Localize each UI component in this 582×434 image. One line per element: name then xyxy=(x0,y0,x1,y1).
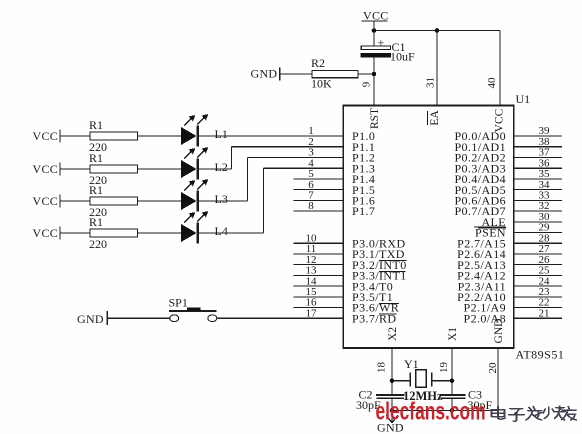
wire pin 21 stub xyxy=(514,317,562,319)
svg-text:R1: R1 xyxy=(89,183,103,197)
wire R1 to LED L1 xyxy=(138,135,182,137)
LED L4 triangle xyxy=(181,224,197,242)
LED L1 cathode bar xyxy=(197,126,200,147)
wire to pin (row L3) xyxy=(247,156,343,158)
LED L4 emission arrows xyxy=(184,211,208,223)
svg-text:Y1: Y1 xyxy=(404,357,419,371)
ground symbol arrow xyxy=(386,410,398,423)
svg-text:220: 220 xyxy=(89,237,107,251)
switch SP1 button block xyxy=(187,308,200,311)
wire R2 to RST node xyxy=(358,73,374,75)
svg-text:L1: L1 xyxy=(215,127,228,141)
ground tick (SP1 row) xyxy=(106,311,108,325)
ground tick (R2 left GND) xyxy=(279,68,281,81)
wire X2 to crystal xyxy=(392,380,410,382)
wire pin 25 stub xyxy=(514,274,562,276)
svg-text:R1: R1 xyxy=(89,151,103,165)
wire VCC to R1 (row L1) xyxy=(60,135,90,137)
VCC tick (row L3) xyxy=(59,195,61,208)
svg-text:U1: U1 xyxy=(516,92,531,106)
svg-text:R1: R1 xyxy=(89,215,103,229)
wire pin 35 stub xyxy=(514,178,562,180)
junction C3 / ground rail xyxy=(450,408,455,413)
wire pin 7 stub xyxy=(294,199,344,201)
resistor R1 body (row L4) xyxy=(90,229,138,237)
wire R1 to LED L4 xyxy=(138,232,182,234)
capacitor C2 top plate xyxy=(376,394,404,396)
capacitor C3 top plate xyxy=(440,394,465,396)
switch SP1 terminal circle right xyxy=(208,315,217,322)
VCC tick (row L1) xyxy=(59,130,61,143)
watermark chinese characters xyxy=(491,406,576,421)
junction VCC rail / EA xyxy=(435,28,440,33)
wire pin 22 stub xyxy=(514,307,562,309)
wire SP1 to pin 17 xyxy=(217,317,343,319)
wire pin 28 stub xyxy=(514,242,562,244)
wire pin 32 stub xyxy=(514,210,562,212)
wire pin 40 VCC drop xyxy=(499,31,501,106)
junction X1 / crystal xyxy=(450,378,455,383)
svg-text:8: 8 xyxy=(308,200,314,212)
wire ground rail xyxy=(392,409,498,411)
wire vertical riser L3 xyxy=(246,157,248,201)
svg-text:GND: GND xyxy=(493,319,505,344)
wire to pin (row L4) xyxy=(264,167,344,169)
wire R1 to LED L2 xyxy=(138,168,182,170)
wire pin 38 stub xyxy=(514,146,562,148)
wire pin 16 stub xyxy=(294,307,344,309)
capacitor C2 bottom plate xyxy=(376,397,404,399)
wire pin 5 stub xyxy=(294,178,344,180)
svg-text:VCC: VCC xyxy=(33,129,59,143)
wire VCC rail horizontal to pin 40 xyxy=(374,30,500,32)
svg-text:P1.7: P1.7 xyxy=(352,204,375,218)
svg-text:18: 18 xyxy=(376,362,388,374)
wire pin 37 stub xyxy=(514,156,562,158)
wire pin 12 stub xyxy=(294,264,344,266)
svg-text:RST: RST xyxy=(369,108,381,129)
svg-text:L2: L2 xyxy=(215,160,228,174)
wire pin 11 stub xyxy=(294,253,344,255)
LED L3 emission arrows xyxy=(184,179,208,191)
LED L2 emission arrows xyxy=(184,147,208,159)
svg-text:10uF: 10uF xyxy=(390,50,415,64)
wire C3 bottom to ground rail xyxy=(451,398,453,410)
wire pin 13 stub xyxy=(294,274,344,276)
svg-text:AT89S51: AT89S51 xyxy=(516,348,565,362)
wire VCC to R1 (row L4) xyxy=(60,232,90,234)
LED L2 cathode bar xyxy=(197,159,200,180)
wire LED L1 to pin 1 xyxy=(199,135,343,137)
wire pin 14 stub xyxy=(294,285,344,287)
wire pin 23 stub xyxy=(514,296,562,298)
svg-text:SP1: SP1 xyxy=(169,295,188,309)
LED L1 triangle xyxy=(181,127,197,145)
svg-text:elecfans.com: elecfans.com xyxy=(376,397,486,425)
svg-text:20: 20 xyxy=(487,362,499,374)
crystal Y1 body xyxy=(416,370,427,388)
svg-text:VCC: VCC xyxy=(33,226,59,240)
svg-text:EA: EA xyxy=(429,110,441,126)
wire pin 36 stub xyxy=(514,167,562,169)
svg-text:9: 9 xyxy=(361,81,373,87)
wire pin 26 stub xyxy=(514,264,562,266)
wire pin 33 stub xyxy=(514,199,562,201)
wire pin 19 X1 drop xyxy=(451,348,453,395)
wire pin 34 stub xyxy=(514,189,562,191)
ALE underline / PSEN overline xyxy=(478,227,506,229)
LED L4 cathode bar xyxy=(197,223,200,244)
switch SP1 actuator bar xyxy=(169,310,217,312)
wire pin 31 EA drop xyxy=(436,31,438,106)
junction X2 / crystal xyxy=(390,378,395,383)
VCC tick (row L2) xyxy=(59,163,61,176)
wire C2 bottom to ground rail xyxy=(391,398,393,410)
wire vertical riser L2 xyxy=(230,147,232,169)
LED L3 cathode bar xyxy=(197,191,200,212)
wire C1 to RST node xyxy=(373,57,375,105)
svg-text:31: 31 xyxy=(425,77,437,88)
svg-text:GND: GND xyxy=(251,67,278,81)
wire LED L4 to corner xyxy=(199,232,264,234)
wire R1 to LED L3 xyxy=(138,200,182,202)
resistor R1 body (row L2) xyxy=(90,165,138,173)
capacitor C1 top plate xyxy=(361,46,390,50)
wire crystal to X1 xyxy=(432,380,452,382)
VCC tick (row L4) xyxy=(59,227,61,240)
watermark elecfans.com xyxy=(376,397,486,425)
IC U1 AT89S51 chip body xyxy=(343,106,513,349)
wire GND to SP1 xyxy=(107,317,170,319)
resistor R1 body (row L1) xyxy=(90,132,138,140)
svg-text:40: 40 xyxy=(486,77,498,89)
svg-text:X1: X1 xyxy=(447,327,459,341)
wire GND to R2 xyxy=(280,73,312,75)
svg-text:R2: R2 xyxy=(311,56,325,70)
svg-text:L3: L3 xyxy=(215,192,228,206)
svg-text:17: 17 xyxy=(306,307,318,319)
wire pin 6 stub xyxy=(294,189,344,191)
wire pin 8 stub xyxy=(294,210,344,212)
LED L2 triangle xyxy=(181,160,197,178)
svg-text:R1: R1 xyxy=(89,118,103,132)
wire pin 20 GND drop xyxy=(497,348,499,410)
svg-text:VCC: VCC xyxy=(33,194,59,208)
wire pin 29 stub xyxy=(514,232,562,234)
junction C2 / ground rail xyxy=(390,408,395,413)
wire LED L3 to corner xyxy=(199,200,247,202)
wire pin 30 stub xyxy=(514,221,562,223)
svg-text:L4: L4 xyxy=(215,224,228,238)
LED L1 emission arrows xyxy=(184,114,208,126)
LED L3 triangle xyxy=(181,192,197,210)
junction VCC rail / C1 xyxy=(372,28,377,33)
svg-text:10K: 10K xyxy=(311,77,332,91)
wire to pin (row L2) xyxy=(231,146,343,148)
junction R2 / RST xyxy=(372,72,377,77)
svg-text:+: + xyxy=(378,36,385,50)
wire LED L2 to corner xyxy=(199,168,231,170)
resistor R1 body (row L3) xyxy=(90,197,138,205)
svg-text:VCC: VCC xyxy=(494,108,506,132)
svg-text:19: 19 xyxy=(438,362,450,374)
resistor R2 body xyxy=(312,70,358,77)
wire pin 18 X2 drop xyxy=(391,348,393,395)
wire pin 24 stub xyxy=(514,285,562,287)
wire pin 27 stub xyxy=(514,253,562,255)
wire VCC to R1 (row L3) xyxy=(60,200,90,202)
capacitor C3 bottom plate xyxy=(441,397,466,399)
svg-text:21: 21 xyxy=(539,307,550,319)
wire VCC to R1 (row L2) xyxy=(60,168,90,170)
wire pin 39 stub xyxy=(514,135,562,137)
svg-text:X2: X2 xyxy=(387,327,399,341)
switch SP1 terminal circle left xyxy=(170,315,179,322)
VCC power symbol (top) xyxy=(362,20,388,22)
wire vertical riser L4 xyxy=(263,168,265,233)
capacitor C1 bottom plate xyxy=(361,53,391,57)
svg-text:VCC: VCC xyxy=(33,162,59,176)
wire VCC stem down to node xyxy=(373,21,375,46)
wire pin 15 stub xyxy=(294,296,344,298)
wire pin 10 stub xyxy=(294,242,344,244)
crystal Y1 right electrode xyxy=(431,373,433,387)
svg-text:GND: GND xyxy=(77,312,104,326)
svg-text:VCC: VCC xyxy=(363,9,389,23)
crystal Y1 left electrode xyxy=(409,373,411,387)
svg-text:P3.7/RD: P3.7/RD xyxy=(352,311,396,325)
